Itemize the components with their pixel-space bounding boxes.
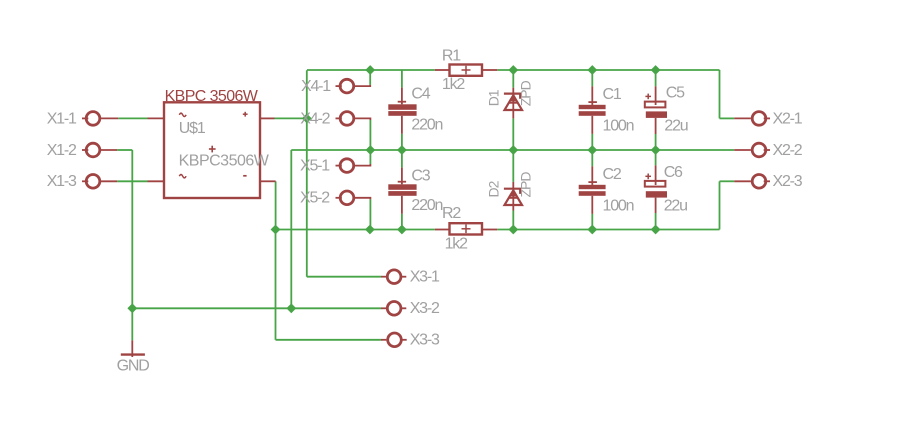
svg-text:X1-2: X1-2: [47, 142, 77, 159]
svg-text:1k2: 1k2: [445, 236, 468, 253]
svg-text:100n: 100n: [603, 197, 634, 214]
svg-text:22u: 22u: [664, 198, 687, 215]
svg-text:ZPD: ZPD: [518, 172, 534, 198]
svg-text:C4: C4: [411, 86, 430, 103]
svg-text:U$1: U$1: [179, 120, 206, 137]
svg-text:X2-2: X2-2: [773, 142, 803, 159]
svg-text:GND: GND: [117, 357, 150, 374]
svg-text:22u: 22u: [664, 118, 687, 135]
svg-text:100n: 100n: [603, 117, 634, 134]
svg-text:C1: C1: [603, 86, 622, 103]
svg-text:X4-1: X4-1: [301, 78, 331, 95]
svg-text:KBPC3506W: KBPC3506W: [179, 152, 270, 169]
svg-text:KBPC 3506W: KBPC 3506W: [165, 88, 259, 105]
svg-text:C6: C6: [664, 164, 683, 181]
svg-text:R2: R2: [442, 205, 461, 222]
svg-text:220n: 220n: [411, 116, 442, 133]
svg-text:X1-3: X1-3: [47, 173, 77, 190]
svg-text:X5-1: X5-1: [300, 158, 330, 175]
svg-text:X3-3: X3-3: [410, 332, 440, 349]
svg-text:D1: D1: [486, 89, 502, 106]
svg-text:C5: C5: [666, 85, 685, 102]
svg-text:R1: R1: [442, 47, 461, 64]
svg-text:X1-1: X1-1: [47, 110, 77, 127]
svg-text:220n: 220n: [411, 197, 442, 214]
svg-text:C2: C2: [603, 166, 622, 183]
svg-text:X3-2: X3-2: [410, 300, 440, 317]
svg-text:D2: D2: [486, 180, 502, 197]
svg-text:X4-2: X4-2: [300, 110, 330, 127]
svg-text:X2-3: X2-3: [773, 173, 803, 190]
svg-text:X5-2: X5-2: [300, 190, 330, 207]
svg-text:X2-1: X2-1: [773, 110, 803, 127]
svg-text:1k2: 1k2: [442, 76, 465, 93]
svg-text:C3: C3: [411, 168, 430, 185]
svg-text:X3-1: X3-1: [410, 269, 440, 286]
svg-text:ZPD: ZPD: [518, 80, 534, 106]
